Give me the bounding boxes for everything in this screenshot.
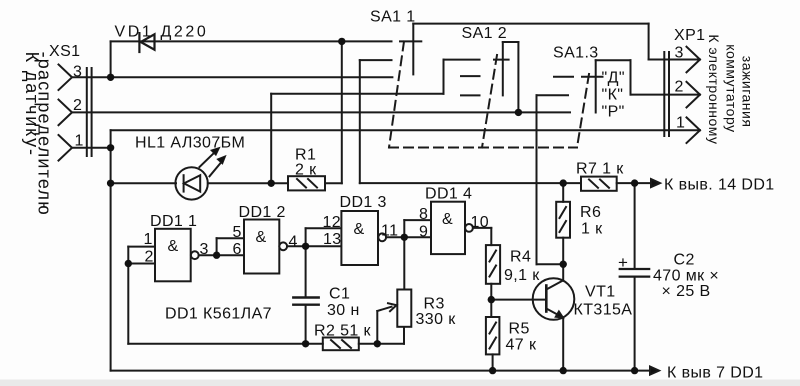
wire feedback row <box>128 343 322 345</box>
wire top row drop to XP1 pin3 <box>648 24 650 60</box>
XS1 pin 3 arrow <box>59 65 73 91</box>
wire LED to R1 <box>208 182 288 184</box>
svg-text:1: 1 <box>676 115 685 132</box>
gate DD1.3 output bubble <box>378 233 386 241</box>
svg-text:&: & <box>442 211 453 228</box>
wire R6 bottom lead <box>562 238 564 265</box>
svg-text:R4: R4 <box>510 249 531 266</box>
svg-text:10: 10 <box>471 214 490 231</box>
junction DD1.1 out node <box>213 252 220 259</box>
svg-text:2: 2 <box>145 249 154 266</box>
svg-text:К выв. 14 DD1: К выв. 14 DD1 <box>664 177 775 194</box>
switch SA1.2 contact3 dash <box>461 94 480 96</box>
junction pin1 row <box>107 144 114 151</box>
XP1 pin 2 arrow <box>687 82 701 108</box>
switch SA1.2 pole arm top <box>503 41 519 43</box>
wire SA1.2 contact1 step <box>443 60 445 94</box>
svg-text:DD1 1: DD1 1 <box>150 213 197 230</box>
switch SA1.1 moving tick <box>400 40 421 42</box>
svg-text:R7 1 к: R7 1 к <box>576 161 624 178</box>
wire XS1 pin 2 row <box>72 111 570 113</box>
wire XS1-XP1 pin1 long row <box>111 129 700 131</box>
gate DD1.1 box <box>155 229 191 281</box>
wire XS1 pin 1 stub <box>72 147 111 149</box>
wire R2 out <box>359 343 404 345</box>
svg-text:&: & <box>255 229 266 246</box>
gate DD1.4 input bracket <box>403 220 405 237</box>
wire XP1 pin3 row <box>649 59 700 61</box>
svg-text:С1: С1 <box>329 286 350 303</box>
potentiometer R3 wiper arrow <box>377 303 396 311</box>
resistor R4 hatch <box>490 251 497 277</box>
wire XP1 pin2 row <box>631 94 701 96</box>
LED HL1 arrow 2 head <box>217 156 226 164</box>
gate DD1.1 output bubble <box>191 251 199 259</box>
rotor link dashed <box>389 147 577 149</box>
junction VD1 row / R1 riser <box>338 38 345 45</box>
rotor SA1.2 dashed <box>482 55 497 148</box>
junction R6 top <box>560 179 567 186</box>
wire SA1.3 pole top <box>596 59 631 61</box>
svg-text:330 к: 330 к <box>416 311 457 328</box>
resistor R2 body <box>323 338 359 351</box>
junction C1 bottom <box>302 340 309 347</box>
wire VD1 row <box>111 40 392 42</box>
svg-text:&: & <box>353 221 364 238</box>
wire DD1.3 out to DD1.4 <box>386 236 431 238</box>
LED HL1 triangle <box>184 175 200 191</box>
switch SA1.1 pole <box>412 24 414 75</box>
wire R5 bottom lead <box>492 354 494 370</box>
junction SA1.2 pole / pin2 row <box>515 109 522 116</box>
gate DD1.1 pin2 wire <box>128 263 155 265</box>
svg-text:VT1: VT1 <box>585 284 616 301</box>
XS1 pin 1 arrow <box>59 135 73 161</box>
svg-text:30 н: 30 н <box>327 302 360 319</box>
connector XS1 double line 2 <box>91 68 93 156</box>
gate DD1.2 box <box>244 220 279 274</box>
svg-text:DD1 К561ЛА7: DD1 К561ЛА7 <box>165 306 272 323</box>
svg-text:КТ315А: КТ315А <box>574 302 633 319</box>
resistor R5 body <box>486 317 500 354</box>
gate DD1.2 pin5 wire <box>217 237 244 239</box>
resistor R5 hatch <box>490 323 497 349</box>
switch SA1.3 contact1 dash <box>554 76 573 78</box>
capacitor C1 plate bottom <box>293 304 318 306</box>
resistor R7 body <box>581 177 617 191</box>
connector XP1 double line <box>663 52 665 136</box>
svg-text:"Д": "Д" <box>602 70 625 87</box>
svg-text:8: 8 <box>419 206 428 223</box>
junction VD1 / pin3 row <box>107 74 114 81</box>
XP1 pin 1 arrow <box>687 117 701 143</box>
gate DD1.4 output bubble <box>465 224 473 232</box>
wire supply row to R7 <box>360 182 581 184</box>
wire XS1 pin 3 row <box>72 76 392 78</box>
switch SA1.3 moving tick <box>582 76 603 78</box>
wire R5 top lead <box>490 300 492 317</box>
wire SA1.1 contact2 stub <box>360 59 392 61</box>
svg-text:&: & <box>167 238 178 255</box>
resistor R2 hatch <box>331 340 351 348</box>
wire R6 top lead <box>562 183 564 202</box>
svg-text:С2: С2 <box>674 252 695 269</box>
wire feedback drop <box>127 264 129 344</box>
wire node A riser (pin1 to pin1-row XP1) <box>110 130 112 148</box>
LED HL1 cathode bar <box>183 175 185 191</box>
junction C2 bottom <box>631 367 638 374</box>
wire base row <box>491 299 546 301</box>
svg-text:HL1 АЛ307БМ: HL1 АЛ307БМ <box>135 135 245 152</box>
svg-text:9: 9 <box>419 224 428 241</box>
wire R3 top lead <box>403 237 405 289</box>
svg-text:R5: R5 <box>509 321 530 338</box>
resistor R7 hatch <box>589 180 609 188</box>
junction R5 bottom <box>489 367 496 374</box>
svg-text:SA1 1: SA1 1 <box>370 9 416 26</box>
gate DD1.4 box <box>431 202 465 254</box>
svg-text:К выв 7 DD1: К выв 7 DD1 <box>667 365 763 382</box>
junction emitter / bottom row <box>560 367 567 374</box>
svg-text:ХР1: ХР1 <box>674 27 705 44</box>
svg-text:SA1 2: SA1 2 <box>462 25 508 42</box>
svg-text:R2 51 к: R2 51 к <box>314 323 372 340</box>
transistor VT1 collector stroke <box>546 280 563 289</box>
scan artifact band bottom <box>0 380 800 386</box>
wire C1 top lead <box>305 246 307 297</box>
diode VD1 <box>141 34 155 49</box>
wire SA1.1 contact2 riser <box>359 60 361 183</box>
resistor R1 body <box>288 176 325 190</box>
gate DD1.3 box <box>341 211 378 265</box>
svg-text:2: 2 <box>73 97 82 114</box>
wire C2 top lead <box>634 183 636 269</box>
svg-text:VD1 Д220: VD1 Д220 <box>115 24 209 41</box>
gate DD1.1 pin1 wire <box>128 246 155 248</box>
svg-text:6: 6 <box>233 241 242 258</box>
resistor R3 body <box>397 290 411 327</box>
resistor R6 hatch <box>560 207 567 232</box>
wire R4 bottom lead <box>490 284 492 300</box>
LED HL1 arrow 2 <box>210 162 222 177</box>
resistor R1 hatch <box>297 179 317 188</box>
wire DD1.4 out <box>473 227 491 229</box>
svg-text:К электронному: К электронному <box>706 34 722 144</box>
wire DD1.4 out drop to R4 <box>490 228 492 245</box>
gate DD1.3 input bracket <box>305 228 307 246</box>
svg-text:2: 2 <box>675 79 684 96</box>
svg-text:DD1 3: DD1 3 <box>340 194 387 211</box>
wire SA1.3 step down <box>630 60 632 94</box>
junction R6 bottom / collector <box>560 261 567 268</box>
XP1 pin 3 arrow <box>687 47 701 73</box>
svg-text:1: 1 <box>144 231 153 248</box>
svg-text:47 к: 47 к <box>506 337 537 354</box>
svg-text:9,1 к: 9,1 к <box>504 267 540 284</box>
wire R3 bottom lead <box>403 327 405 344</box>
switch SA1.3 pole <box>595 60 597 112</box>
transistor VT1 circle <box>533 278 575 320</box>
wire SA1.2 contact1 feed riser <box>270 94 272 184</box>
svg-text:DD1 4: DD1 4 <box>425 186 472 203</box>
wire SA1.2 contact1 <box>444 59 480 61</box>
wire riser R1 to VD1 row <box>341 41 343 183</box>
wire emitter lead <box>562 318 564 371</box>
gate DD1.4 pin8 wire <box>404 219 431 221</box>
junction R2 out / R3 <box>374 340 381 347</box>
wire R3 wiper drop <box>376 311 378 344</box>
wire SA1.3 contact2 drop <box>536 95 538 264</box>
svg-text:2 к: 2 к <box>295 162 317 179</box>
wire collector node link <box>537 263 564 265</box>
svg-text:12: 12 <box>323 214 342 231</box>
junction DD1.1 input feedback <box>125 260 132 267</box>
svg-text:зажигания: зажигания <box>740 56 756 128</box>
connector XP1 double line 2 <box>668 52 670 136</box>
LED HL1 arrow 1 <box>200 152 216 168</box>
wire R1 to riser <box>325 182 342 184</box>
wire collector lead <box>562 264 564 280</box>
wire top row <box>413 23 648 25</box>
svg-text:13: 13 <box>323 231 342 248</box>
svg-text:1: 1 <box>75 133 84 150</box>
wire SA1.3 contact2 <box>537 94 569 96</box>
switch SA1.2 contact2 dash <box>461 75 480 77</box>
resistor R4 body <box>486 245 500 284</box>
gate DD1.3 pin12 wire <box>306 227 342 229</box>
wire LED branch vertical <box>110 148 112 371</box>
svg-text:3: 3 <box>200 241 209 258</box>
svg-text:"Р": "Р" <box>602 104 625 121</box>
transistor VT1 emitter arrowhead <box>556 312 563 318</box>
diode VD1 cathode bar <box>138 33 140 52</box>
LED HL1 arrow 1 head <box>211 147 220 155</box>
wire DD1.2 out to DD1.3 <box>287 245 341 247</box>
svg-text:+: + <box>618 253 628 272</box>
svg-text:5: 5 <box>233 224 242 241</box>
wire C2 bottom lead <box>634 277 636 371</box>
switch SA1.2 pole arm <box>502 42 504 95</box>
gate DD1.2 output bubble <box>279 242 287 250</box>
rotor SA1.3 dashed <box>577 74 589 148</box>
rotor SA1.1 dashed <box>389 42 404 148</box>
XS1 pin 2 arrow <box>59 100 73 126</box>
arrow to pin 14 DD1 <box>651 179 660 187</box>
wire C1 bottom lead <box>305 305 307 344</box>
svg-text:SA1.3: SA1.3 <box>553 45 599 62</box>
svg-text:1 к: 1 к <box>581 221 603 238</box>
capacitor C1 plate top <box>293 296 318 298</box>
wire bottom common row <box>111 370 651 372</box>
junction LED row <box>107 180 114 187</box>
svg-text:× 25 В: × 25 В <box>662 283 711 300</box>
switch SA1.2 pole riser <box>517 42 519 112</box>
switch SA1.2 moving tick <box>494 59 509 61</box>
svg-text:DD1 2: DD1 2 <box>239 204 286 221</box>
junction DD1.3 out node <box>401 234 408 241</box>
transistor VT1 emitter stroke <box>546 309 563 318</box>
svg-text:R6: R6 <box>580 204 601 221</box>
capacitor C2 plate bottom <box>620 276 650 278</box>
transistor VT1 base bar <box>545 286 548 312</box>
wire DD1.1 out to DD1.2 <box>199 254 244 256</box>
svg-text:коммутатору: коммутатору <box>723 44 739 132</box>
svg-text:4: 4 <box>289 234 298 251</box>
svg-text:470 мк ×: 470 мк × <box>653 268 719 285</box>
gate DD1.1 input bracket <box>127 247 129 264</box>
resistor R6 body <box>556 202 570 238</box>
arrow to pin 7 DD1 <box>650 367 659 375</box>
svg-text:11: 11 <box>381 223 398 240</box>
svg-text:R3: R3 <box>424 296 445 313</box>
svg-text:3: 3 <box>675 45 684 62</box>
junction C2 top / R7 out <box>631 179 638 186</box>
gate DD1.2 input bracket <box>216 238 218 255</box>
junction LED row / SA1.2 feed <box>268 180 275 187</box>
wire VD1 anode riser <box>110 41 112 77</box>
junction DD1.2 out node <box>302 243 309 250</box>
svg-text:-распределителю: -распределителю <box>35 52 55 216</box>
wire R7 out <box>617 182 652 184</box>
LED HL1 circle <box>175 167 207 199</box>
connector XS1 double line <box>86 68 88 156</box>
wire LED row left <box>111 182 176 184</box>
wire SA1.2 contact1 feed <box>271 93 443 95</box>
svg-text:"К": "К" <box>602 87 624 104</box>
svg-text:3: 3 <box>73 64 82 81</box>
capacitor C2 plate top <box>620 268 650 270</box>
junction R4 / base / R5 <box>488 296 495 303</box>
